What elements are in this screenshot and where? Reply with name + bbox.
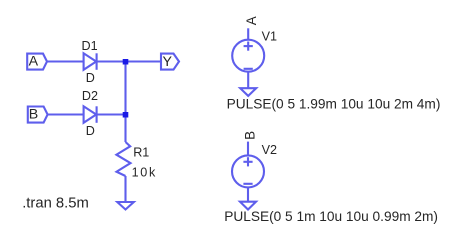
input flag B bbox=[28, 107, 48, 123]
diode D1 bbox=[84, 53, 97, 70]
svg-text:R1: R1 bbox=[133, 145, 149, 159]
wire B to D2 bbox=[48, 113, 84, 115]
ground symbol (V2) bbox=[240, 202, 256, 210]
resistor R1 bbox=[116, 142, 130, 176]
output flag Y bbox=[161, 54, 179, 70]
wire label B to V2 bbox=[247, 142, 249, 156]
svg-text:10k: 10k bbox=[132, 166, 157, 180]
svg-text:.tran 8.5m: .tran 8.5m bbox=[22, 195, 89, 211]
svg-text:V2: V2 bbox=[262, 143, 277, 157]
wire V2 to ground bbox=[247, 187, 249, 201]
wire V1 to ground bbox=[247, 72, 249, 89]
vertical wire junction to R1 bbox=[124, 62, 126, 143]
svg-text:PULSE(0 5 1m 10u 10u 0.99m 2m): PULSE(0 5 1m 10u 10u 0.99m 2m) bbox=[224, 209, 438, 224]
ground symbol (V1) bbox=[240, 88, 256, 96]
svg-text:D1: D1 bbox=[82, 39, 98, 53]
wire D2 to junction bbox=[97, 113, 126, 115]
wire D1 to Y bbox=[97, 60, 161, 62]
input flag A bbox=[27, 54, 47, 70]
svg-text:B: B bbox=[242, 131, 257, 140]
svg-text:PULSE(0 5 1.99m 10u 10u 2m 4m): PULSE(0 5 1.99m 10u 10u 2m 4m) bbox=[227, 97, 441, 112]
diode D2 bbox=[84, 106, 97, 123]
svg-text:D: D bbox=[86, 124, 95, 138]
wire R1 to ground bbox=[124, 176, 126, 202]
junction node at B row bbox=[123, 112, 129, 118]
voltage source V2 bbox=[232, 155, 264, 187]
svg-text:A: A bbox=[29, 54, 39, 70]
svg-text:A: A bbox=[244, 16, 259, 25]
voltage source V1 bbox=[232, 40, 264, 72]
svg-text:V1: V1 bbox=[262, 29, 277, 43]
svg-text:D2: D2 bbox=[82, 89, 98, 103]
svg-text:D: D bbox=[86, 71, 95, 85]
svg-text:B: B bbox=[29, 106, 38, 122]
ground symbol (R1) bbox=[117, 202, 134, 210]
wire label A to V1 bbox=[247, 28, 249, 40]
wire A to D1 bbox=[47, 60, 84, 62]
svg-text:Y: Y bbox=[163, 54, 173, 70]
junction node at Y wire bbox=[123, 59, 129, 65]
